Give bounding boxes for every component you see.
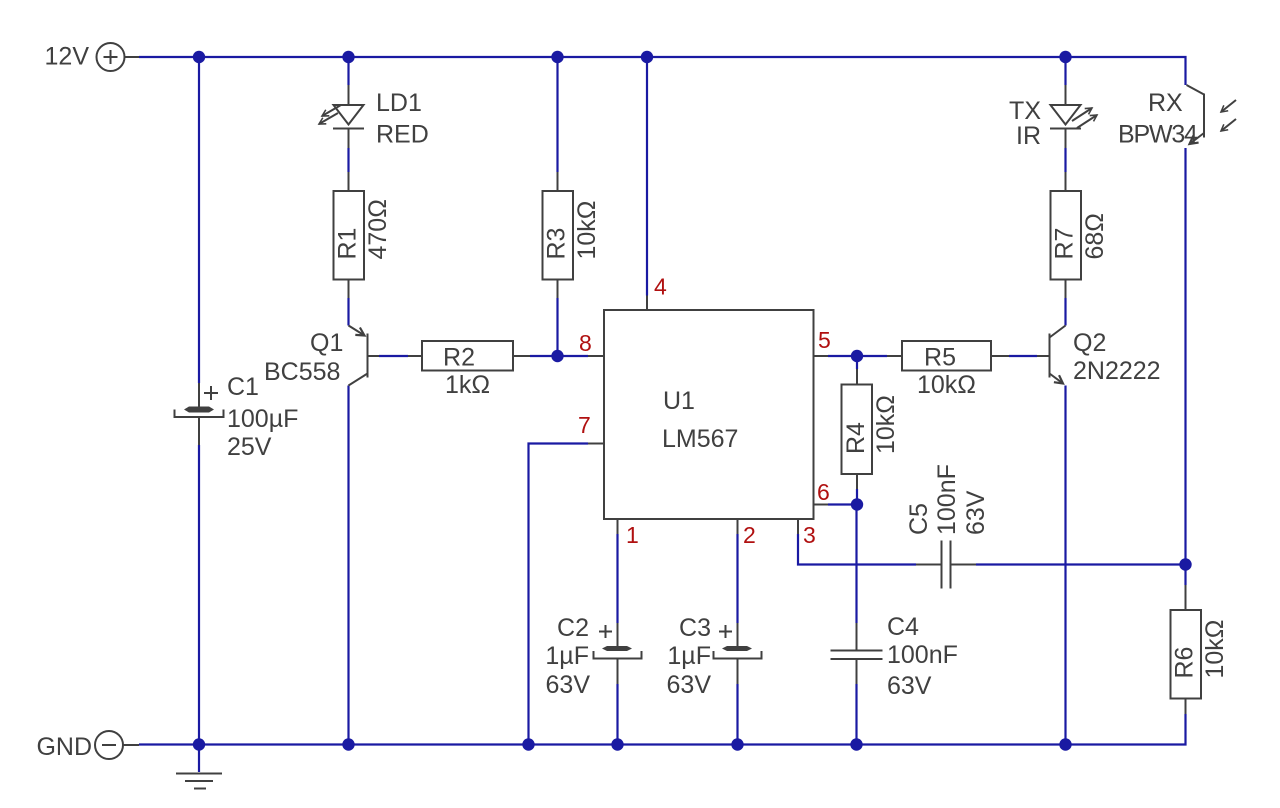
wire R4 top [856,356,858,369]
svg-text:63V: 63V [667,671,712,699]
junction bottom rail Q2 [1059,738,1071,750]
transistor Q2 [1037,326,1161,386]
svg-text:BC558: BC558 [264,358,340,386]
junction top rail pin4 [641,51,653,63]
svg-text:10kΩ: 10kΩ [872,395,900,454]
resistor R7 [1051,172,1110,298]
svg-text:R5: R5 [924,344,956,372]
wire Q1 base to R2 [379,355,408,357]
wire R4 bottom / pin 6 [828,489,857,505]
wire pin 1 [616,534,618,745]
svg-text:C1: C1 [227,373,259,401]
junction pin 8 [551,350,563,362]
svg-text:RED: RED [376,121,429,149]
svg-text:68Ω: 68Ω [1081,213,1109,260]
svg-text:RX: RX [1148,89,1183,117]
junction bottom rail C1 [193,738,205,750]
svg-text:IR: IR [1016,122,1041,150]
svg-text:2N2222: 2N2222 [1073,357,1161,385]
svg-text:3: 3 [803,522,816,548]
svg-text:R7: R7 [1051,228,1079,260]
svg-text:100nF: 100nF [933,464,961,535]
svg-text:2: 2 [743,522,756,548]
wire pin4 [646,57,648,296]
photodetector RX BPW34 [1118,85,1236,149]
svg-text:C3: C3 [679,614,711,642]
svg-text:1: 1 [626,522,639,548]
svg-text:LM567: LM567 [662,425,738,453]
junction bottom rail C2 [611,738,623,750]
resistor R4 [842,369,901,489]
power symbol GND [36,731,139,761]
wire R3 column [556,57,558,356]
svg-text:25V: 25V [227,433,272,461]
svg-text:8: 8 [579,330,592,356]
capacitor C2 [545,614,641,699]
svg-text:4: 4 [654,274,667,300]
wire pin6 to C4 [855,505,857,745]
junction bottom rail C4 [850,738,862,750]
junction top rail R1 [342,51,354,63]
svg-text:100µF: 100µF [227,405,298,433]
junction C5 / RX / R6 [1179,558,1191,570]
svg-text:6: 6 [817,479,830,505]
capacitor C4 [831,613,958,700]
svg-text:1µF: 1µF [545,642,589,670]
wire RX / R6 column [1184,148,1186,585]
resistor R2 [408,341,530,399]
svg-text:Q2: Q2 [1073,329,1106,357]
svg-text:R3: R3 [543,228,571,260]
junction bottom rail C3 [731,738,743,750]
svg-text:7: 7 [578,412,591,438]
wire top rail [139,57,1186,85]
wire pin 2 [736,534,738,745]
svg-text:63V: 63V [962,490,990,535]
svg-text:1kΩ: 1kΩ [445,371,490,399]
svg-text:C4: C4 [887,613,919,641]
LED LD1 [319,85,429,149]
svg-text:R6: R6 [1171,647,1199,679]
svg-text:12V: 12V [45,43,90,71]
transistor Q1 [264,326,379,387]
wire pin 5 to R5 [828,355,887,357]
wire bottom rail [139,714,1186,745]
resistor R3 [543,172,602,298]
capacitor C3 [667,614,762,699]
junction pin 5 [851,350,863,362]
svg-text:C2: C2 [557,614,589,642]
op-amp U1 LM567 [588,296,828,535]
wire R5 to Q2 base [1009,355,1037,357]
wire pin 7 [529,444,589,745]
svg-text:63V: 63V [546,671,591,699]
capacitor C5 [905,464,990,588]
svg-text:C5: C5 [905,503,933,535]
junction bottom rail Q1 [342,738,354,750]
svg-text:BPW34: BPW34 [1118,121,1198,149]
capacitor C1 [175,373,299,461]
svg-text:GND: GND [36,733,92,761]
wire pin 3 / C5 row [798,534,1186,565]
junction top rail C1 [193,51,205,63]
svg-text:Q1: Q1 [310,329,343,357]
svg-text:10kΩ: 10kΩ [917,371,976,399]
resistor R1 [334,172,393,298]
ground [176,745,222,789]
resistor R6 [1171,585,1230,714]
svg-text:100nF: 100nF [887,641,958,669]
svg-text:10kΩ: 10kΩ [1201,620,1229,679]
svg-text:470Ω: 470Ω [364,199,392,259]
junction pin 6 [851,498,863,510]
junction top rail R7 [1059,51,1071,63]
wire R2 to pin 8 [530,355,588,357]
svg-text:R2: R2 [443,344,475,372]
wire C1 net [198,57,200,745]
wire LED LD1 / R1 / Q1 column [347,57,349,745]
wire R7 / TX / Q2 column [1064,57,1066,745]
svg-text:63V: 63V [887,672,932,700]
svg-text:1µF: 1µF [667,642,711,670]
svg-text:U1: U1 [663,387,695,415]
svg-text:5: 5 [818,327,831,353]
junction bottom rail pin7 [522,738,534,750]
svg-text:10kΩ: 10kΩ [573,201,601,260]
svg-text:R4: R4 [842,422,870,454]
svg-text:LD1: LD1 [376,89,422,117]
resistor R5 [887,341,1009,399]
svg-text:R1: R1 [334,228,362,260]
junction top rail R3 [551,51,563,63]
svg-text:TX: TX [1009,97,1041,125]
LED TX IR [1009,85,1097,150]
power symbol 12V [45,43,139,72]
